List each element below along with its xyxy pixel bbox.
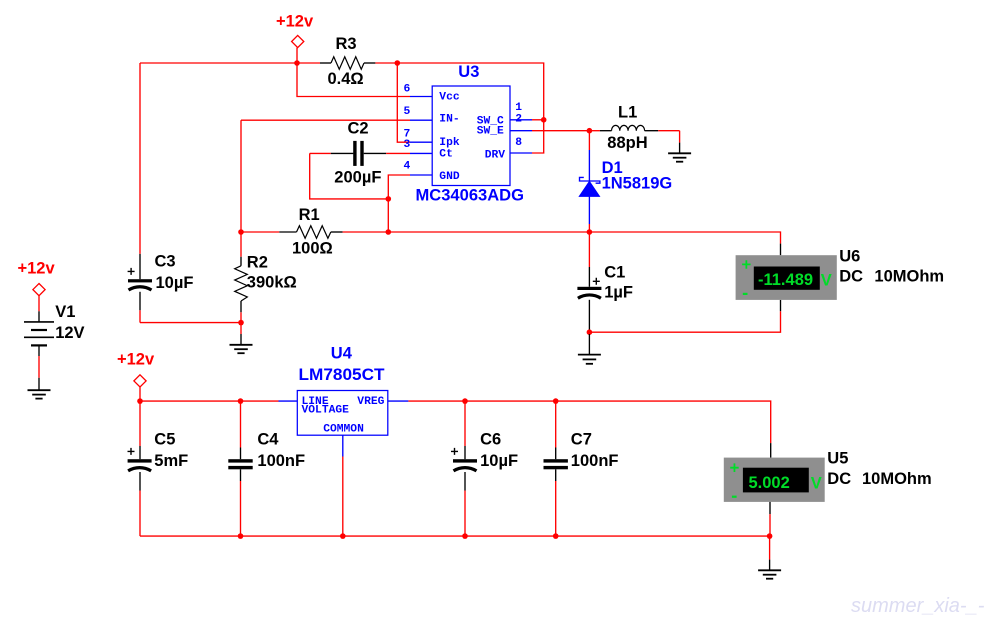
U3 pin 4 GND stub <box>410 174 432 176</box>
junction at SW_C node <box>541 117 547 123</box>
svg-text:10MOhm: 10MOhm <box>874 268 944 286</box>
U6 minus terminal mark <box>743 293 748 295</box>
svg-text:100nF: 100nF <box>571 452 619 470</box>
svg-text:R3: R3 <box>336 35 357 53</box>
U5 minus terminal mark <box>732 496 737 498</box>
wire bottom rail C3 to R2 ground node <box>140 322 241 324</box>
regulator U4 LM7805CT box <box>297 391 388 436</box>
svg-text:DC: DC <box>839 268 863 286</box>
svg-text:U6: U6 <box>839 247 860 265</box>
svg-text:C2: C2 <box>348 120 369 138</box>
battery V1 <box>24 296 54 391</box>
svg-text:V1: V1 <box>55 303 75 321</box>
label C3 plus <box>128 268 135 275</box>
voltmeter U5 body <box>724 458 825 502</box>
svg-text:summer_xia-_-: summer_xia-_- <box>851 595 985 617</box>
junction ground rail at U5 <box>767 533 773 539</box>
junction C2 loop meets GND loop <box>386 196 392 202</box>
ground below U5 <box>758 536 781 579</box>
junction input rail at C4 <box>238 398 244 404</box>
ground below C1 <box>578 334 601 364</box>
svg-text:8: 8 <box>515 137 522 149</box>
U6 plus terminal mark <box>742 260 751 269</box>
svg-text:5: 5 <box>404 106 411 118</box>
svg-text:C1: C1 <box>604 264 625 282</box>
svg-text:1µF: 1µF <box>604 283 633 301</box>
junction GND loop on mid rail <box>386 229 392 235</box>
wire top rail right segment and drop to SW_C <box>397 63 543 120</box>
svg-text:1N5819G: 1N5819G <box>602 175 673 193</box>
svg-text:C5: C5 <box>154 431 175 449</box>
junction at +12v on top rail <box>294 60 300 66</box>
svg-text:10µF: 10µF <box>156 274 194 292</box>
junction R2 bottom <box>238 320 244 326</box>
wire +12v to Vcc pin 6 <box>297 63 410 97</box>
svg-text:U3: U3 <box>458 63 479 81</box>
label C1 plus <box>593 278 600 285</box>
voltmeter U5 display <box>743 468 809 493</box>
svg-text:V: V <box>811 474 822 492</box>
svg-text:4: 4 <box>404 161 411 173</box>
svg-text:88pH: 88pH <box>607 134 647 152</box>
svg-text:U5: U5 <box>827 449 848 467</box>
svg-text:+12v: +12v <box>117 351 155 369</box>
svg-text:2: 2 <box>515 113 522 125</box>
svg-text:MC34063ADG: MC34063ADG <box>416 187 525 205</box>
node +12v connector diamond (top) <box>292 35 304 47</box>
svg-text:5.002: 5.002 <box>749 474 790 492</box>
U3 pin 8 DRV stub <box>510 152 532 154</box>
svg-text:Ipk: Ipk <box>439 137 460 149</box>
U3 pin 5 IN- stub <box>410 119 432 121</box>
svg-text:IN-: IN- <box>439 113 459 125</box>
svg-text:COMMON: COMMON <box>323 424 364 436</box>
wire SW_C to drop junction <box>532 119 544 121</box>
U4 LINE pin stub <box>279 400 298 402</box>
wire diamond to bottom input rail <box>139 387 141 401</box>
capacitor C6 <box>453 401 477 536</box>
svg-text:LM7805CT: LM7805CT <box>299 366 385 384</box>
diode D1 1N5819G <box>579 131 600 232</box>
capacitor C2 <box>310 141 410 166</box>
svg-text:-11.489: -11.489 <box>758 271 813 289</box>
svg-text:R1: R1 <box>299 206 320 224</box>
svg-text:DRV: DRV <box>485 150 506 162</box>
junction ground rail at C6 <box>462 533 468 539</box>
resistor R3 <box>320 57 375 70</box>
svg-text:C7: C7 <box>571 431 592 449</box>
op-amp controller U3 MC34063ADG box <box>432 86 510 186</box>
svg-text:3: 3 <box>404 139 411 151</box>
capacitor C1 <box>577 232 601 332</box>
wire SW_E to switch node <box>532 130 589 132</box>
voltmeter U6 body <box>736 255 837 300</box>
svg-text:C4: C4 <box>257 431 279 449</box>
svg-text:L1: L1 <box>618 104 637 122</box>
svg-text:12V: 12V <box>55 324 84 342</box>
svg-text:10µF: 10µF <box>480 452 518 470</box>
wire node to R1 <box>241 231 279 233</box>
voltmeter U6 display <box>754 267 820 290</box>
wire U5 top lead <box>770 443 772 458</box>
wire mid rail to output node <box>388 231 589 233</box>
wire feedback vertical to R1/R2 node <box>240 120 242 232</box>
svg-text:+12v: +12v <box>276 13 314 31</box>
svg-text:0.4Ω: 0.4Ω <box>328 70 364 88</box>
wire diamond to top rail <box>296 48 298 63</box>
U4 VREG pin stub <box>388 400 409 402</box>
label C6 plus <box>451 448 458 455</box>
wire feedback node to IN- pin 5 <box>241 119 410 121</box>
wire C1 node to U6 bottom corner <box>589 311 780 332</box>
capacitor C7 <box>544 401 568 536</box>
svg-text:+12v: +12v <box>18 260 56 278</box>
wire U6 bottom lead <box>780 300 782 311</box>
U5 plus terminal mark <box>730 463 739 472</box>
svg-text:SW_E: SW_E <box>477 126 504 138</box>
svg-text:Ct: Ct <box>439 148 453 160</box>
junction ground rail at C4 <box>238 533 244 539</box>
U3 pin 6 Vcc stub <box>410 96 432 98</box>
U3 pin 3 Ct stub <box>410 152 432 154</box>
svg-text:100Ω: 100Ω <box>292 240 333 258</box>
inductor L1 <box>589 125 679 130</box>
svg-text:200µF: 200µF <box>334 168 381 186</box>
svg-text:U4: U4 <box>331 344 353 362</box>
wire DRV to SW_C vertical <box>532 120 544 153</box>
U4 COMMON pin stub <box>342 435 344 456</box>
node +12v connector diamond (V1) <box>33 284 45 296</box>
junction switch node <box>587 128 593 134</box>
junction R1/R2 node <box>238 229 244 235</box>
svg-text:VREG: VREG <box>357 396 384 408</box>
svg-text:Vcc: Vcc <box>439 92 460 104</box>
ground below V1 <box>28 390 51 398</box>
wire U6 top lead <box>780 244 782 256</box>
junction output rail at C7 <box>553 398 559 404</box>
svg-text:6: 6 <box>404 84 411 96</box>
svg-text:5mF: 5mF <box>154 452 188 470</box>
ground below R2 <box>230 323 253 354</box>
wire R3 right to Ipk pin 7 <box>397 63 410 142</box>
junction ground rail at COMMON <box>340 533 346 539</box>
wire top rail to R3 <box>297 62 320 64</box>
svg-text:1: 1 <box>515 102 522 114</box>
svg-text:V: V <box>821 272 832 290</box>
svg-text:10MOhm: 10MOhm <box>862 470 932 488</box>
svg-text:390kΩ: 390kΩ <box>247 273 297 291</box>
U3 pin 2 SW_E stub <box>510 130 532 132</box>
junction ground rail at C7 <box>553 533 559 539</box>
svg-text:100nF: 100nF <box>257 452 305 470</box>
resistor R2 <box>235 232 248 323</box>
wire output rail to U6 top corner <box>589 232 780 244</box>
U3 pin 1/2 SW_C stub <box>510 119 532 121</box>
junction output rail at C6 <box>462 398 468 404</box>
wire U5 bottom lead <box>769 502 771 514</box>
svg-text:R2: R2 <box>247 253 268 271</box>
U3 pin 7 Ipk stub <box>410 141 432 143</box>
wire U5 lead to ground rail <box>769 514 771 536</box>
resistor R1 <box>279 226 342 239</box>
svg-text:GND: GND <box>439 171 460 183</box>
junction right of R3 <box>395 60 401 66</box>
wire U4 COMMON to ground rail <box>342 457 344 537</box>
junction C1 bottom node <box>587 329 593 335</box>
svg-text:C3: C3 <box>155 253 176 271</box>
wire output rail of U4 <box>408 401 770 443</box>
junction output node at C1/D1 <box>587 229 593 235</box>
label C5 plus <box>128 448 135 455</box>
capacitor C3 <box>128 63 152 323</box>
svg-text:C6: C6 <box>480 431 501 449</box>
wire GND pin 4 loop <box>388 175 410 232</box>
wire top rail left segment <box>140 62 297 64</box>
capacitor C5 <box>128 401 152 536</box>
capacitor C4 <box>228 401 252 536</box>
svg-text:VOLTAGE: VOLTAGE <box>302 404 350 416</box>
svg-text:DC: DC <box>827 470 851 488</box>
wire R3 to right junction <box>375 62 397 64</box>
wire input rail to U4 <box>140 400 279 402</box>
ground right of L1 <box>668 131 691 162</box>
wire R1 to GND-loop junction <box>343 231 389 233</box>
wire C2 left loop to GND loop <box>310 153 389 199</box>
node +12v connector diamond (bottom) <box>134 375 146 387</box>
wire bottom ground rail <box>140 535 770 537</box>
junction input rail at C5 <box>137 398 143 404</box>
